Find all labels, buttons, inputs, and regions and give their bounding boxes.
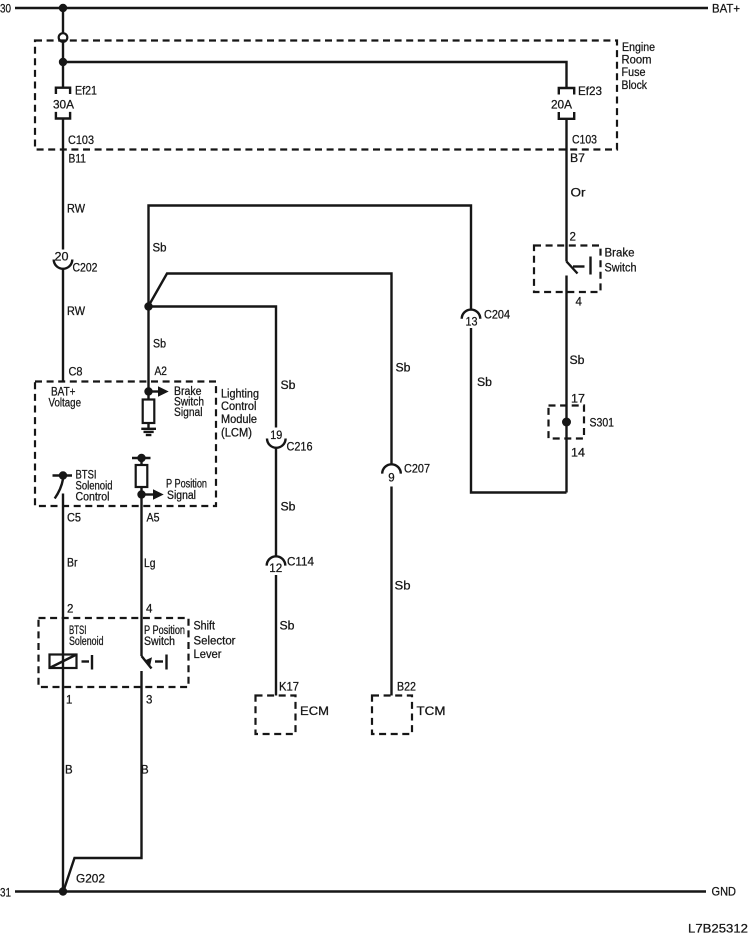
svg-text:Sb: Sb	[477, 377, 492, 389]
svg-text:Sb: Sb	[280, 621, 295, 633]
svg-text:Solenoid: Solenoid	[69, 636, 104, 648]
svg-text:Sb: Sb	[396, 363, 411, 375]
svg-text:Control: Control	[221, 401, 257, 413]
svg-text:A2: A2	[155, 366, 168, 378]
connector C202 pin 20	[54, 252, 98, 275]
svg-text:4: 4	[146, 604, 153, 616]
connector circle at fuse block entry	[59, 33, 68, 42]
svg-text:14: 14	[571, 448, 586, 460]
connector C207 pin 9	[382, 464, 430, 485]
svg-text:20: 20	[55, 252, 69, 264]
svg-text:Sb: Sb	[395, 581, 411, 593]
svg-text:Selector: Selector	[194, 636, 236, 648]
wire from BAT+ rail down	[62, 8, 64, 33]
svg-text:P Position: P Position	[166, 479, 207, 491]
BTSI solenoid	[50, 625, 104, 670]
wire BTSI control out through C5 to solenoid and ground	[62, 494, 64, 892]
ground (LCM internal)	[141, 423, 156, 435]
svg-text:B7: B7	[570, 153, 585, 165]
svg-text:(LCM): (LCM)	[221, 428, 252, 440]
splice S301	[549, 406, 615, 439]
Lighting Control Module (LCM) box	[35, 382, 259, 507]
svg-text:Signal: Signal	[174, 407, 203, 419]
wire below Ef23	[565, 119, 567, 262]
wire branch diagonal to C207	[149, 274, 392, 464]
svg-text:Sb: Sb	[281, 380, 296, 392]
wire P position switch to ground joint	[63, 671, 141, 892]
wire C204 up and left to LCM wire	[149, 206, 472, 392]
fuse Ef21 30A	[53, 84, 97, 119]
svg-text:L7B25312: L7B25312	[688, 922, 748, 935]
svg-text:B11: B11	[69, 154, 87, 166]
node A2 brake switch signal	[144, 386, 204, 419]
svg-text:C8: C8	[69, 367, 83, 379]
svg-text:Or: Or	[571, 188, 586, 200]
svg-text:RW: RW	[67, 204, 85, 216]
svg-text:Brake: Brake	[605, 248, 635, 260]
wire C207 to TCM	[390, 487, 392, 696]
svg-text:Fuse: Fuse	[622, 67, 646, 79]
shift selector lever box	[39, 618, 236, 687]
wire S301 down and left to C204 branch	[471, 328, 567, 493]
svg-text:Sb: Sb	[153, 243, 167, 255]
svg-text:C202: C202	[73, 263, 98, 275]
svg-text:Room: Room	[622, 55, 652, 67]
TCM module box	[372, 696, 446, 735]
svg-text:RW: RW	[67, 306, 85, 318]
junction dot on BAT+ rail	[59, 4, 67, 12]
svg-text:31: 31	[0, 886, 11, 900]
junction dot brake signal branch	[144, 302, 152, 310]
node 31 GND rail	[0, 885, 736, 900]
svg-text:Block: Block	[622, 80, 648, 92]
junction dot inside fuse block	[59, 58, 67, 66]
node BTSI solenoid control driver	[53, 470, 113, 504]
svg-text:Lighting: Lighting	[221, 389, 259, 401]
svg-text:Shift: Shift	[194, 621, 216, 633]
fuse Ef23 20A	[551, 84, 602, 119]
svg-text:Engine: Engine	[622, 42, 655, 54]
svg-text:B22: B22	[397, 682, 416, 694]
resistor (LCM pull-down A2)	[143, 392, 155, 424]
svg-text:Lg: Lg	[144, 558, 156, 570]
svg-text:4: 4	[576, 297, 583, 309]
resistor (LCM pull-up A5)	[136, 458, 148, 487]
svg-text:2: 2	[67, 604, 73, 616]
svg-text:30A: 30A	[53, 98, 74, 112]
connector C216 pin 19	[267, 430, 313, 454]
svg-text:Ef23: Ef23	[578, 84, 602, 98]
connector C204 pin 13	[462, 310, 511, 329]
svg-text:C207: C207	[404, 464, 430, 476]
node 30 BAT+ rail	[0, 2, 740, 16]
wire C216 to C114	[275, 448, 277, 556]
svg-text:TCM: TCM	[417, 706, 446, 718]
svg-text:30: 30	[0, 2, 11, 16]
svg-text:Sb: Sb	[281, 502, 296, 514]
label BAT+ Voltage	[49, 387, 82, 410]
wire branch to C216	[149, 307, 277, 428]
svg-text:Signal: Signal	[167, 490, 196, 502]
svg-text:Voltage: Voltage	[49, 398, 82, 410]
svg-text:1: 1	[66, 695, 72, 707]
svg-text:20A: 20A	[551, 98, 572, 112]
svg-text:C5: C5	[67, 513, 81, 525]
svg-text:12: 12	[269, 563, 282, 575]
wire into fuse block	[62, 42, 64, 88]
svg-text:C114: C114	[287, 557, 315, 569]
svg-text:Control: Control	[76, 492, 110, 504]
svg-text:BAT+: BAT+	[712, 2, 740, 16]
splice G202	[59, 874, 105, 896]
svg-text:Sb: Sb	[153, 339, 166, 351]
svg-text:13: 13	[466, 317, 478, 329]
svg-text:19: 19	[270, 430, 282, 442]
node P position signal pull-up	[132, 454, 151, 462]
svg-text:Switch: Switch	[144, 636, 175, 648]
svg-text:C216: C216	[287, 442, 313, 454]
svg-text:Ef21: Ef21	[75, 84, 97, 98]
wire brake switch to S301	[565, 276, 567, 493]
wire C114 to ECM	[275, 575, 277, 696]
svg-text:G202: G202	[76, 874, 105, 886]
svg-text:B: B	[65, 765, 73, 777]
connector C114 pin 12	[267, 556, 315, 575]
svg-text:Switch: Switch	[605, 263, 637, 275]
P position switch	[142, 625, 186, 670]
svg-text:ECM: ECM	[300, 706, 329, 718]
connector C103 pin B7 labels (right)	[570, 135, 597, 166]
wire below C202	[62, 269, 64, 382]
svg-text:Br: Br	[67, 558, 78, 570]
svg-text:K17: K17	[279, 682, 299, 694]
svg-text:S301: S301	[590, 418, 615, 430]
svg-text:C204: C204	[484, 310, 511, 322]
svg-text:Lever: Lever	[194, 649, 222, 661]
svg-text:9: 9	[388, 473, 394, 485]
Engine Room Fuse Block box	[35, 41, 655, 150]
svg-text:C103: C103	[68, 135, 94, 147]
svg-text:GND: GND	[712, 885, 737, 899]
node A5 P position signal	[137, 479, 207, 657]
brake switch	[534, 246, 637, 293]
ECM module box	[256, 696, 330, 735]
wire bus inside fuse block to Ef23	[63, 62, 567, 88]
svg-text:Sb: Sb	[570, 355, 585, 367]
svg-text:3: 3	[146, 695, 152, 707]
svg-text:17: 17	[571, 394, 585, 406]
svg-text:2: 2	[570, 232, 576, 244]
svg-text:C103: C103	[572, 135, 597, 147]
svg-text:Module: Module	[221, 414, 257, 426]
svg-text:A5: A5	[147, 513, 160, 525]
wire below Ef21	[62, 119, 64, 250]
connector C103 pin B11 labels (left)	[68, 135, 94, 166]
